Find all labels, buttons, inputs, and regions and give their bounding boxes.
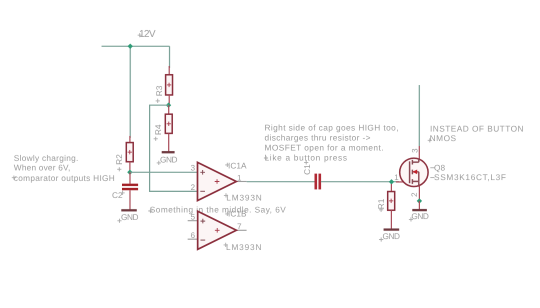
capacitor C2 pin top <box>129 172 131 184</box>
svg-text:GND: GND <box>411 211 429 221</box>
transistor Q8 drain pin <box>418 146 420 159</box>
node junction gate/R1 <box>389 179 394 184</box>
wire node to pin3 <box>130 171 198 173</box>
svg-text:3: 3 <box>191 163 196 172</box>
resistor R1 <box>388 192 395 211</box>
wire C1 to gate node <box>321 181 399 183</box>
svg-text:GND: GND <box>382 231 400 241</box>
svg-text:GND: GND <box>121 212 139 222</box>
resistor R1 pin bottom to gnd <box>390 210 392 229</box>
svg-text:C2: C2 <box>112 190 123 200</box>
svg-text:6: 6 <box>191 231 196 240</box>
svg-text:IC1B: IC1B <box>228 209 247 219</box>
op-amp IC1A output pin stub <box>236 180 246 182</box>
transistor Q8 body circle <box>400 158 428 186</box>
svg-text:5: 5 <box>191 212 196 221</box>
ground under R1 <box>384 228 400 230</box>
capacitor C2 <box>122 184 138 186</box>
svg-text:When over 6V,: When over 6V, <box>14 163 71 173</box>
svg-text:1: 1 <box>394 173 399 182</box>
transistor Q8 channel mid stub + arrow <box>412 170 418 182</box>
svg-text:12V: 12V <box>139 29 156 40</box>
wire IC1A out to C1 <box>247 181 315 183</box>
resistor R4 pin bottom to gnd <box>168 133 170 151</box>
resistor R3 <box>166 75 173 95</box>
resistor R2 <box>126 143 133 162</box>
op-amp IC1B pin stubs <box>188 220 198 222</box>
resistor R1 pin top <box>390 184 392 192</box>
ground under Q8 <box>412 209 427 211</box>
svg-text:7: 7 <box>237 222 242 231</box>
svg-text:LM393N: LM393N <box>226 193 262 203</box>
svg-text:2: 2 <box>191 183 196 192</box>
capacitor C2 pin bottom to gnd <box>129 190 131 209</box>
svg-text:LM393N: LM393N <box>226 242 262 252</box>
transistor Q8 channel bottom stub <box>412 179 418 187</box>
svg-text:Something in the middle. Say,: Something in the middle. Say, 6V <box>150 204 286 214</box>
svg-text:R2: R2 <box>114 154 124 165</box>
svg-text:2: 2 <box>410 192 419 197</box>
svg-text:INSTEAD OF BUTTON: INSTEAD OF BUTTON <box>430 124 524 134</box>
op-amp IC1B <box>198 211 237 249</box>
svg-text:C1: C1 <box>302 164 312 175</box>
wire drain up <box>418 85 420 146</box>
svg-text:3: 3 <box>410 148 419 153</box>
transistor Q8 gate pin <box>396 181 410 183</box>
supply 12V origin cross <box>138 33 142 37</box>
svg-text:comparator outputs HIGH: comparator outputs HIGH <box>14 173 115 183</box>
node junction 12V rail <box>128 44 133 49</box>
svg-text:NMOS: NMOS <box>430 133 457 143</box>
svg-text:R1: R1 <box>376 198 386 209</box>
resistor R3 pin top <box>168 66 170 76</box>
wire 12V rail down to R2 <box>129 46 131 138</box>
ground under C2 <box>121 209 137 211</box>
svg-text:MOSFET open for a moment.: MOSFET open for a moment. <box>264 142 383 152</box>
svg-text:GND: GND <box>160 154 178 164</box>
ground under R4 <box>162 151 175 153</box>
svg-text:Q8: Q8 <box>434 162 445 172</box>
wire 12V rail to R3 <box>169 46 171 68</box>
capacitor C1 <box>314 174 317 190</box>
resistor R3 pin bottom <box>168 95 170 105</box>
svg-text:discharges thru resistor ->: discharges thru resistor -> <box>265 132 371 142</box>
node junction source/gnd <box>417 198 422 203</box>
svg-text:Like a button press: Like a button press <box>264 152 347 162</box>
transistor Q8 source pin <box>418 186 420 201</box>
svg-text:Slowly charging.: Slowly charging. <box>14 153 79 163</box>
transistor Q8 channel top stub <box>412 158 418 164</box>
svg-text:IC1A: IC1A <box>228 160 247 170</box>
resistor R4 pin top <box>168 105 170 115</box>
resistor R4 <box>165 114 172 133</box>
node junction R2/C2 <box>127 170 132 175</box>
wire source to gnd <box>418 201 420 209</box>
svg-text:R3: R3 <box>154 85 164 96</box>
resistor R2 pin bottom <box>129 162 131 173</box>
resistor R2 pin top <box>129 136 131 143</box>
svg-text:R4: R4 <box>153 124 163 135</box>
svg-text:1: 1 <box>237 174 242 183</box>
node junction R3/R4 <box>166 102 171 107</box>
wire 12V rail horizontal <box>102 45 170 47</box>
svg-text:Right side of cap goes HIGH to: Right side of cap goes HIGH too, <box>265 123 399 133</box>
wire divider node to pin2 <box>150 105 198 191</box>
svg-text:SSM3K16CT,L3F: SSM3K16CT,L3F <box>434 172 506 182</box>
op-amp IC1A <box>197 162 236 200</box>
transistor Q8 gate bar <box>409 161 411 183</box>
